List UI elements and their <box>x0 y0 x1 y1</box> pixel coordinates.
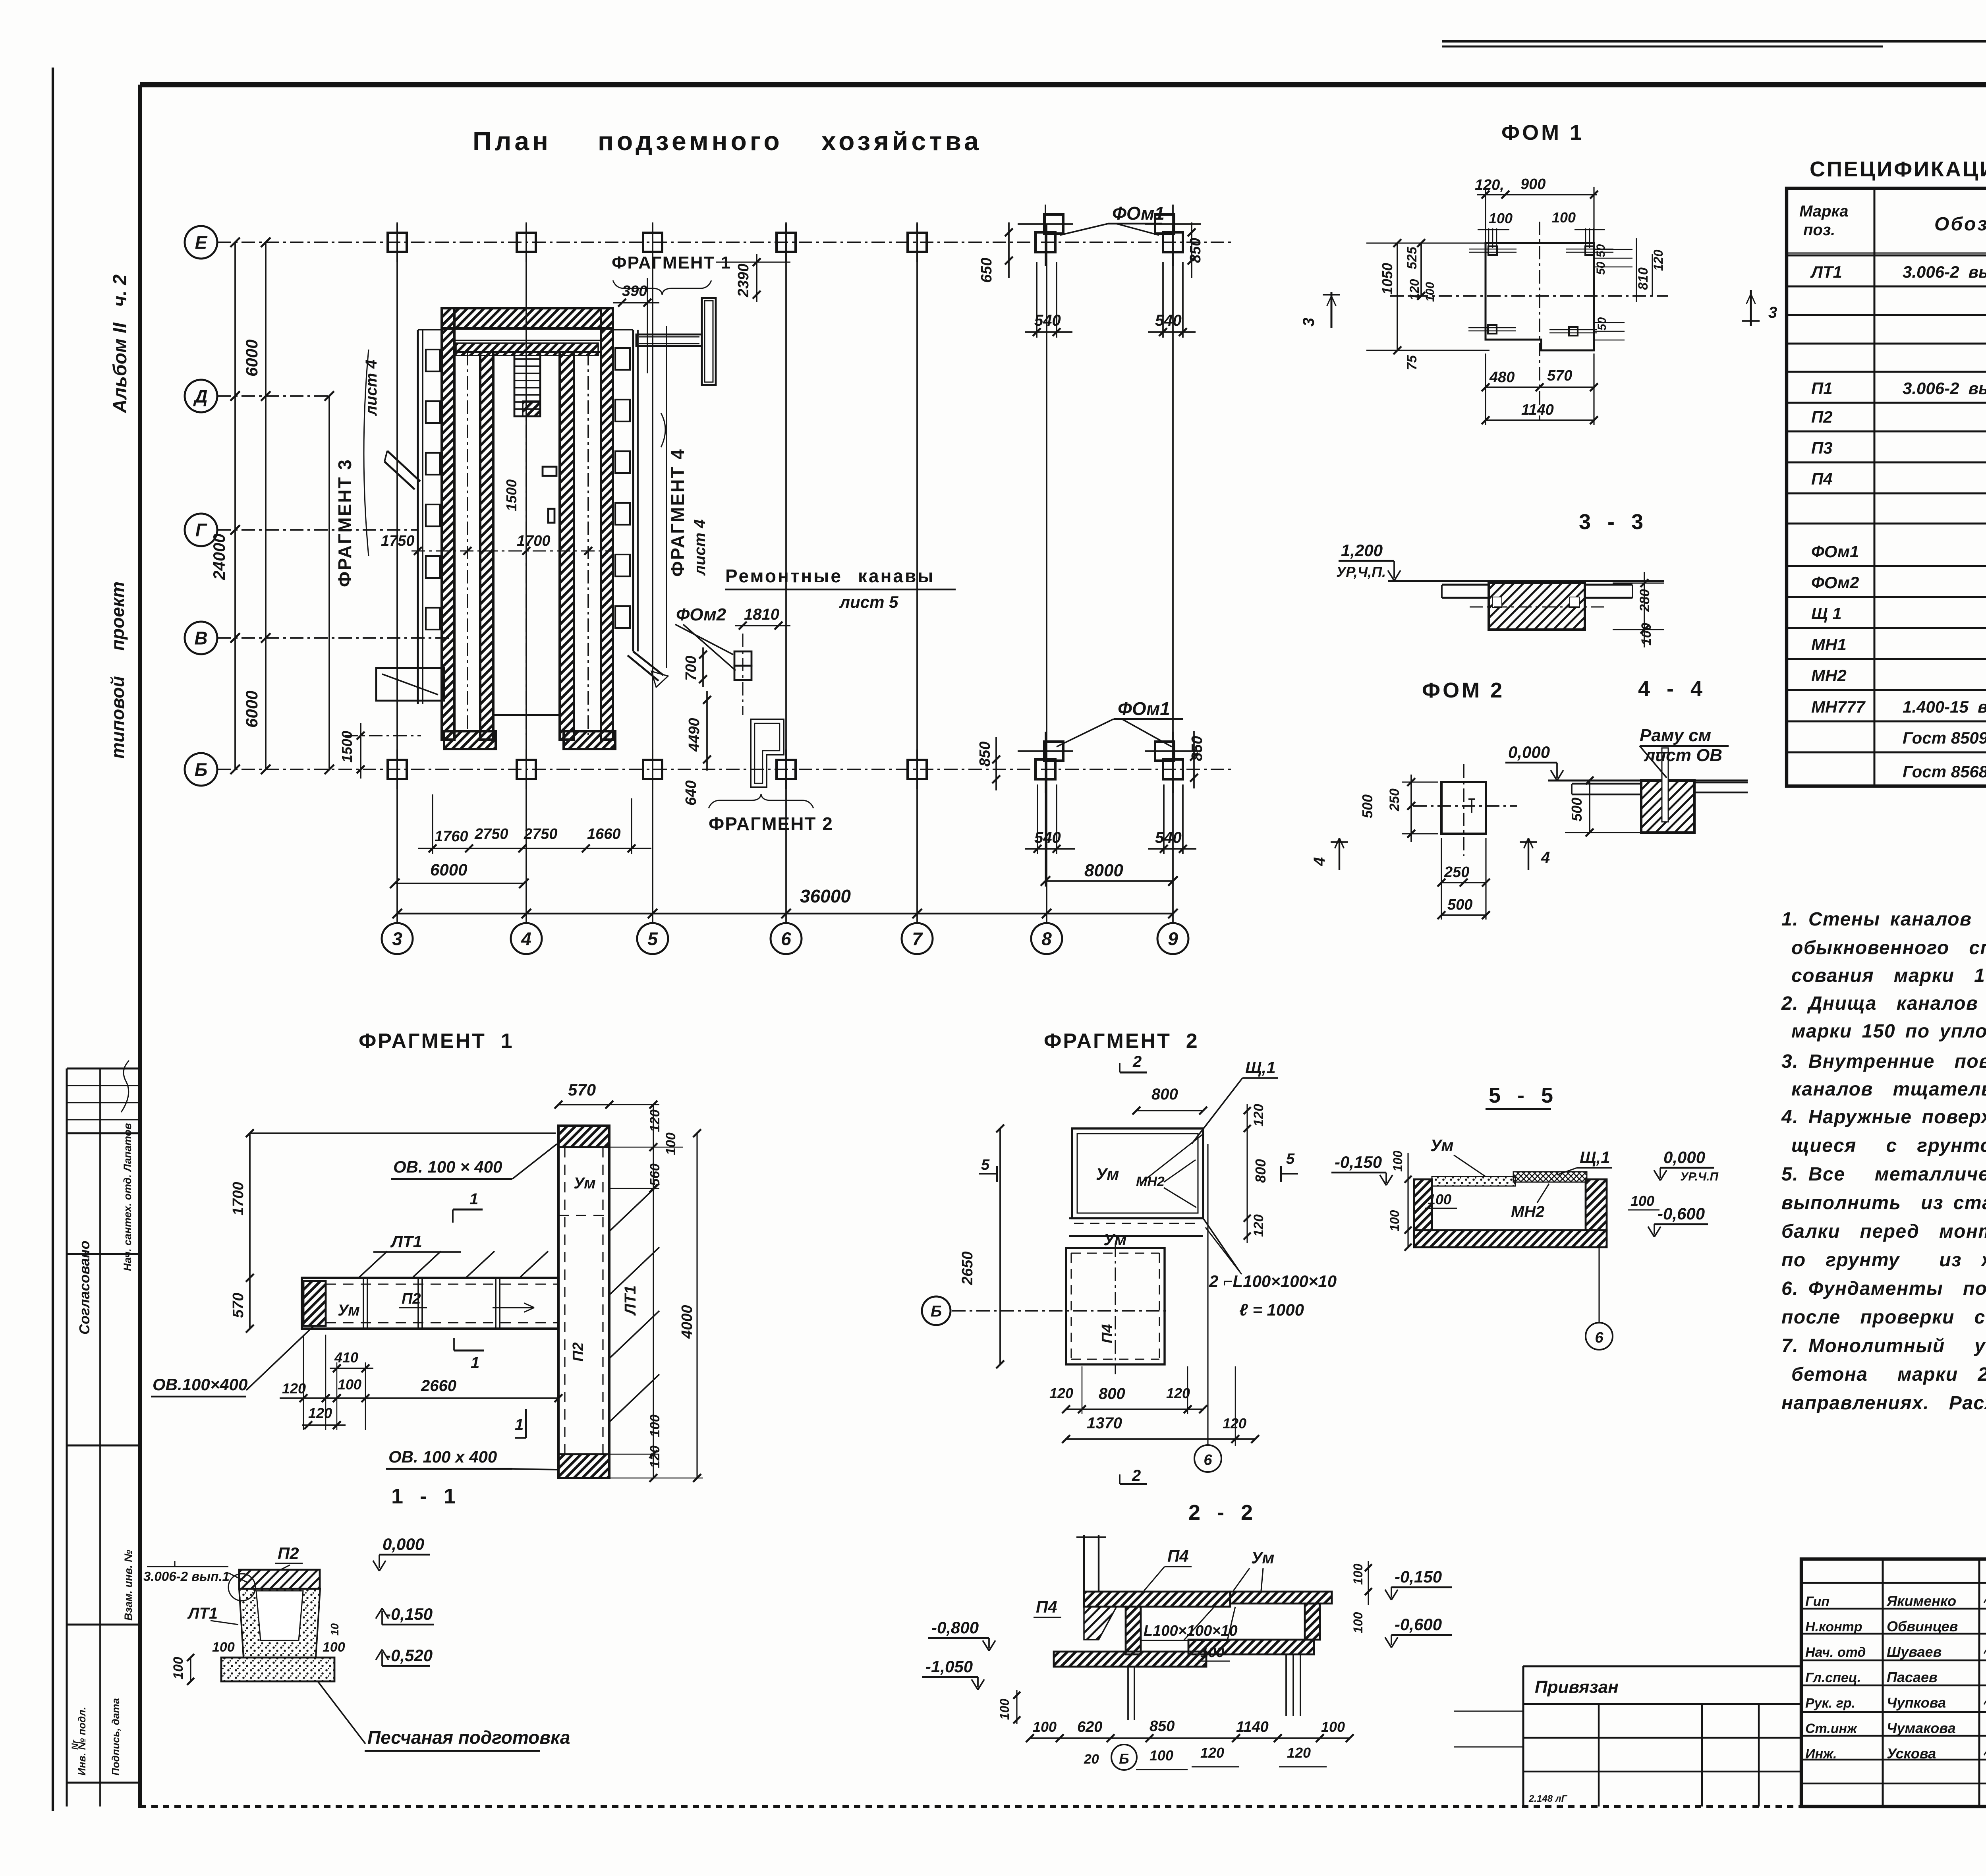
svg-text:700: 700 <box>683 656 699 681</box>
svg-text:Nr: Nr <box>70 1739 80 1750</box>
svg-text:балки перед монтажом покрыт: балки перед монтажом покрыть масляной кр… <box>1781 1221 1986 1242</box>
svg-text:типовой проект: типовой проект <box>107 582 128 759</box>
svg-text:Ум: Ум <box>1430 1136 1453 1155</box>
svg-text:120: 120 <box>1223 1415 1246 1432</box>
svg-text:УР,Ч,П.: УР,Ч,П. <box>1336 564 1386 580</box>
svg-text:-0,600: -0,600 <box>1658 1204 1705 1223</box>
svg-text:Шуваев: Шуваев <box>1887 1644 1942 1660</box>
svg-text:525: 525 <box>1404 246 1420 269</box>
svg-text:-0,150: -0,150 <box>385 1605 433 1623</box>
svg-text:480: 480 <box>1489 369 1515 386</box>
svg-text:120: 120 <box>647 1109 663 1132</box>
svg-text:П2: П2 <box>1811 408 1833 426</box>
svg-text:ФРАГМЕНТ 4: ФРАГМЕНТ 4 <box>667 448 688 577</box>
svg-text:1500: 1500 <box>339 731 355 763</box>
svg-text:120: 120 <box>1166 1385 1190 1401</box>
svg-text:120: 120 <box>308 1405 332 1421</box>
svg-text:-0,600: -0,600 <box>1395 1615 1442 1634</box>
svg-text:2. Днища каналов и приямков: 2. Днища каналов и приямков выполнить из… <box>1781 993 1986 1014</box>
svg-text:Н.контр: Н.контр <box>1805 1619 1862 1634</box>
svg-text:ЛТ1: ЛТ1 <box>1810 263 1842 281</box>
svg-text:4. Наружные поверхности кирпи: 4. Наружные поверхности кирпичной кладки… <box>1781 1107 1986 1128</box>
svg-text:П4: П4 <box>1036 1598 1057 1616</box>
svg-text:Гип: Гип <box>1805 1594 1830 1609</box>
svg-text:100: 100 <box>171 1657 186 1679</box>
svg-text:50: 50 <box>1596 317 1609 330</box>
svg-text:390: 390 <box>622 283 647 299</box>
svg-text:100: 100 <box>1552 209 1576 226</box>
svg-text:120: 120 <box>647 1445 663 1468</box>
svg-text:Привязан: Привязан <box>1535 1677 1619 1697</box>
svg-text:Чумакова: Чумакова <box>1887 1720 1956 1736</box>
svg-text:Б: Б <box>195 759 208 780</box>
svg-text:МН2: МН2 <box>1511 1203 1544 1221</box>
svg-text:3.006-2 вып. II-1: 3.006-2 вып. II-1 <box>1903 263 1986 281</box>
svg-text:2390: 2390 <box>735 263 752 298</box>
svg-text:1. Стены каналов и приямка: 1. Стены каналов и приямка выполнить из … <box>1781 909 1986 930</box>
svg-text:3.006-2 вып. II-2: 3.006-2 вып. II-2 <box>1903 379 1986 398</box>
svg-text:100: 100 <box>1391 1150 1405 1172</box>
svg-text:100: 100 <box>1200 1644 1224 1660</box>
svg-text:5. Все металлические конст: 5. Все металлические конструкции перекры… <box>1781 1164 1986 1185</box>
svg-text:Ст.инж: Ст.инж <box>1805 1721 1858 1736</box>
svg-text:500: 500 <box>1359 794 1376 818</box>
svg-text:250: 250 <box>1387 788 1402 811</box>
svg-text:1: 1 <box>469 1190 478 1208</box>
svg-text:ФРАГМЕНТ 1: ФРАГМЕНТ 1 <box>359 1030 514 1053</box>
svg-text:1500: 1500 <box>503 479 520 511</box>
svg-text:ФОм2: ФОм2 <box>1811 573 1859 592</box>
svg-text:щиеся с грунтом, обмазать: щиеся с грунтом, обмазать битумом за 2 р… <box>1791 1135 1986 1156</box>
svg-text:1700: 1700 <box>517 533 551 549</box>
svg-text:120: 120 <box>282 1380 306 1397</box>
svg-text:ОВ. 100 х 400: ОВ. 100 х 400 <box>388 1447 497 1466</box>
svg-text:ФОм1: ФОм1 <box>1811 542 1859 561</box>
svg-text:20: 20 <box>1084 1752 1099 1767</box>
svg-text:Якименко: Якименко <box>1886 1593 1956 1609</box>
svg-text:8: 8 <box>1041 929 1052 949</box>
svg-text:1700: 1700 <box>230 1182 247 1215</box>
svg-text:100: 100 <box>1639 623 1654 645</box>
svg-text:лист ОВ: лист ОВ <box>1644 746 1722 765</box>
svg-text:Песчаная подготовка: Песчаная подготовка <box>367 1727 570 1748</box>
svg-text:1: 1 <box>471 1354 479 1372</box>
svg-text:П4: П4 <box>1811 469 1833 488</box>
svg-text:1.400-15 вып.1: 1.400-15 вып.1 <box>1903 697 1986 716</box>
svg-text:Марка: Марка <box>1799 203 1849 220</box>
svg-text:120: 120 <box>1200 1745 1224 1761</box>
svg-text:900: 900 <box>1520 176 1546 193</box>
svg-text:хозяйства: хозяйства <box>821 126 982 156</box>
svg-text:5: 5 <box>981 1157 990 1173</box>
svg-text:540: 540 <box>1155 829 1182 846</box>
svg-text:Ускова: Ускова <box>1887 1745 1936 1762</box>
svg-text:2660: 2660 <box>421 1377 456 1395</box>
svg-text:СПЕЦИФИКАЦИЯ: СПЕЦИФИКАЦИЯ <box>1810 157 1986 181</box>
svg-text:ФОМ 2: ФОМ 2 <box>1422 678 1505 702</box>
svg-text:850: 850 <box>977 742 993 767</box>
svg-text:2 - 2: 2 - 2 <box>1188 1501 1254 1524</box>
svg-text:ФРАГМЕНТ 2: ФРАГМЕНТ 2 <box>709 813 833 834</box>
svg-text:50: 50 <box>1594 261 1607 275</box>
svg-text:выполнить из стали В СТ3 КП2: выполнить из стали В СТ3 КП2 по ГОСТ 380… <box>1781 1192 1986 1213</box>
svg-text:540: 540 <box>1155 312 1182 329</box>
svg-text:3. Внутренние поверхности к: 3. Внутренние поверхности кирпичных вент… <box>1781 1051 1986 1072</box>
svg-text:-0,800: -0,800 <box>931 1618 979 1637</box>
svg-text:после проверки соответствия: после проверки соответствия их монтируем… <box>1781 1307 1986 1328</box>
svg-text:ЛТ1: ЛТ1 <box>390 1232 422 1251</box>
svg-text:1 - 1: 1 - 1 <box>391 1484 457 1508</box>
svg-text:0,000: 0,000 <box>1508 743 1550 761</box>
svg-text:8000: 8000 <box>1084 861 1123 880</box>
svg-text:75: 75 <box>1404 355 1420 370</box>
svg-text:640: 640 <box>683 781 699 806</box>
svg-text:50: 50 <box>1594 244 1607 257</box>
svg-text:П4: П4 <box>1099 1324 1116 1343</box>
svg-text:1: 1 <box>515 1416 524 1434</box>
svg-text:280: 280 <box>1637 589 1652 612</box>
svg-text:2 ⌐L100×100×10: 2 ⌐L100×100×10 <box>1209 1272 1337 1291</box>
svg-text:410: 410 <box>334 1349 358 1366</box>
svg-text:2750: 2750 <box>474 826 508 842</box>
svg-text:100: 100 <box>1631 1193 1654 1209</box>
svg-text:-0,150: -0,150 <box>1395 1567 1442 1586</box>
svg-text:по грунту из железного: по грунту из железного сурика. <box>1781 1250 1986 1271</box>
svg-text:100: 100 <box>338 1376 361 1393</box>
svg-text:5 - 5: 5 - 5 <box>1489 1084 1555 1107</box>
svg-text:120: 120 <box>1407 279 1422 300</box>
svg-text:100: 100 <box>1424 282 1437 302</box>
svg-text:2650: 2650 <box>959 1251 976 1285</box>
svg-text:1760: 1760 <box>435 828 468 845</box>
svg-text:Обвинцев: Обвинцев <box>1887 1618 1958 1634</box>
svg-text:120: 120 <box>1049 1385 1073 1401</box>
svg-text:-0,520: -0,520 <box>385 1646 433 1665</box>
svg-text:бетона марки 200 армирован: бетона марки 200 армированного Ф8АI шаго… <box>1791 1364 1986 1385</box>
svg-text:500: 500 <box>1569 798 1585 821</box>
svg-text:4: 4 <box>1541 849 1550 866</box>
svg-text:3: 3 <box>392 929 402 949</box>
svg-text:650: 650 <box>978 258 995 283</box>
svg-text:Нач. отд: Нач. отд <box>1805 1645 1866 1660</box>
svg-text:5: 5 <box>647 929 658 949</box>
svg-text:Д: Д <box>193 386 207 407</box>
svg-text:120: 120 <box>1251 1214 1266 1237</box>
svg-text:7. Монолитный участок пере: 7. Монолитный участок перекрытия канала … <box>1781 1335 1986 1356</box>
svg-text:800: 800 <box>1252 1159 1269 1183</box>
svg-text:Гл.спец.: Гл.спец. <box>1805 1670 1861 1685</box>
svg-text:1050: 1050 <box>1379 263 1395 295</box>
svg-text:Пасаев: Пасаев <box>1887 1669 1938 1685</box>
svg-text:7: 7 <box>912 929 923 949</box>
svg-text:Рук. гр.: Рук. гр. <box>1805 1696 1855 1711</box>
svg-text:4000: 4000 <box>679 1305 695 1339</box>
svg-text:УР.Ч.П: УР.Ч.П <box>1680 1170 1719 1183</box>
svg-text:100: 100 <box>1351 1612 1365 1633</box>
svg-text:850: 850 <box>1187 238 1204 263</box>
svg-text:6: 6 <box>1595 1329 1603 1346</box>
svg-text:канавы: канавы <box>858 566 935 586</box>
svg-text:100: 100 <box>1428 1191 1451 1208</box>
svg-text:-1,050: -1,050 <box>925 1657 973 1676</box>
svg-text:направлениях. Расход материа: направлениях. Расход материалов: бетон-0… <box>1781 1393 1986 1414</box>
svg-text:В: В <box>194 628 207 649</box>
svg-text:3.006-2 вып.1: 3.006-2 вып.1 <box>143 1569 230 1584</box>
svg-text:3 - 3: 3 - 3 <box>1579 510 1645 534</box>
svg-text:поз.: поз. <box>1803 221 1835 239</box>
svg-text:Ум: Ум <box>1096 1165 1119 1183</box>
svg-text:марки 150 по уплотненному ще: марки 150 по уплотненному щебнем грунту. <box>1791 1021 1986 1042</box>
svg-text:Щ,1: Щ,1 <box>1580 1148 1610 1167</box>
svg-text:120: 120 <box>1287 1745 1311 1761</box>
svg-text:Инж.: Инж. <box>1805 1747 1837 1762</box>
svg-text:1140: 1140 <box>1236 1719 1269 1735</box>
svg-text:100: 100 <box>1321 1719 1345 1735</box>
svg-text:2750: 2750 <box>524 826 558 842</box>
svg-text:2: 2 <box>1132 1053 1142 1070</box>
svg-text:П2: П2 <box>570 1343 587 1362</box>
svg-text:570: 570 <box>1547 367 1572 384</box>
svg-text:4490: 4490 <box>686 718 703 752</box>
svg-text:9: 9 <box>1168 929 1178 949</box>
svg-text:1750: 1750 <box>381 533 415 549</box>
svg-text:Ум: Ум <box>338 1302 360 1319</box>
svg-text:ФРАГМЕНТ 1: ФРАГМЕНТ 1 <box>612 253 731 272</box>
svg-text:обыкновенного сплошного кирп: обыкновенного сплошного кирпича пластиче… <box>1791 937 1986 958</box>
svg-text:800: 800 <box>1099 1385 1125 1403</box>
svg-text:ФОм2: ФОм2 <box>676 605 726 624</box>
svg-text:250: 250 <box>1444 864 1469 881</box>
svg-text:850: 850 <box>1149 1718 1175 1735</box>
svg-text:Нач. сантех. отд. Лапатов: Нач. сантех. отд. Лапатов <box>122 1123 133 1271</box>
svg-text:36000: 36000 <box>800 886 851 906</box>
svg-text:ФОм1: ФОм1 <box>1112 203 1165 224</box>
svg-text:Взам. инв. №: Взам. инв. № <box>122 1550 134 1621</box>
svg-text:ФОм1: ФОм1 <box>1118 698 1170 719</box>
svg-text:Б: Б <box>931 1302 942 1320</box>
svg-text:100: 100 <box>647 1414 663 1437</box>
svg-text:570: 570 <box>568 1080 596 1099</box>
svg-text:120: 120 <box>1251 1104 1266 1126</box>
svg-text:лист 4: лист 4 <box>691 520 709 576</box>
svg-text:100: 100 <box>323 1640 345 1655</box>
svg-text:4: 4 <box>521 929 531 949</box>
svg-text:100: 100 <box>212 1640 235 1655</box>
svg-text:МН1: МН1 <box>1811 635 1847 654</box>
svg-text:ЛТ1: ЛТ1 <box>622 1285 639 1316</box>
svg-text:П1: П1 <box>1811 379 1833 398</box>
svg-text:Е: Е <box>195 232 208 253</box>
svg-text:6: 6 <box>1204 1452 1212 1468</box>
svg-text:100: 100 <box>1033 1719 1057 1735</box>
svg-text:Согласовано: Согласовано <box>76 1240 93 1335</box>
svg-text:100: 100 <box>663 1132 678 1155</box>
svg-text:МН2: МН2 <box>1811 666 1847 685</box>
svg-text:П4: П4 <box>1167 1547 1189 1565</box>
svg-text:Обозначение: Обозначение <box>1934 214 1986 235</box>
svg-text:1810: 1810 <box>744 606 779 623</box>
svg-text:лист 5: лист 5 <box>839 593 898 611</box>
svg-text:ОВ. 100 × 400: ОВ. 100 × 400 <box>393 1157 502 1176</box>
svg-text:100: 100 <box>1489 210 1513 226</box>
svg-text:100: 100 <box>1351 1563 1365 1585</box>
svg-text:0,000: 0,000 <box>1663 1148 1705 1167</box>
svg-text:100: 100 <box>997 1698 1012 1720</box>
svg-text:6: 6 <box>781 929 791 949</box>
svg-text:24000: 24000 <box>210 533 228 580</box>
svg-text:Щ,1: Щ,1 <box>1245 1058 1276 1077</box>
svg-text:ФРАГМЕНТ 2: ФРАГМЕНТ 2 <box>1044 1030 1199 1053</box>
svg-text:ℓ = 1000: ℓ = 1000 <box>1239 1300 1304 1319</box>
svg-text:МН2: МН2 <box>1136 1174 1165 1189</box>
svg-text:ФРАГМЕНТ 3: ФРАГМЕНТ 3 <box>334 458 355 587</box>
svg-text:МН777: МН777 <box>1811 697 1866 716</box>
svg-text:570: 570 <box>230 1293 247 1318</box>
svg-text:1660: 1660 <box>587 826 621 842</box>
svg-text:Ремонтные: Ремонтные <box>725 566 842 586</box>
svg-text:1370: 1370 <box>1087 1414 1122 1432</box>
svg-text:каналов тщательно затереть: каналов тщательно затереть цементным рас… <box>1791 1079 1986 1100</box>
svg-text:подземного: подземного <box>598 126 783 156</box>
svg-text:П2: П2 <box>402 1291 421 1307</box>
svg-text:1140: 1140 <box>1521 402 1554 418</box>
svg-text:3: 3 <box>1768 304 1777 321</box>
svg-text:6000: 6000 <box>242 340 261 377</box>
svg-text:Гост 8509- 72*: Гост 8509- 72* <box>1903 728 1986 747</box>
svg-text:Ум: Ум <box>1251 1548 1274 1567</box>
svg-text:П2: П2 <box>278 1544 299 1563</box>
svg-text:ФОМ 1: ФОМ 1 <box>1501 121 1584 145</box>
svg-text:ЛТ1: ЛТ1 <box>187 1605 218 1622</box>
svg-text:Чупкова: Чупкова <box>1887 1694 1946 1711</box>
svg-text:100: 100 <box>1387 1210 1402 1231</box>
svg-text:2: 2 <box>1132 1467 1141 1484</box>
svg-text:100: 100 <box>1149 1747 1173 1764</box>
svg-text:810: 810 <box>1636 267 1651 290</box>
svg-text:10: 10 <box>328 1623 341 1636</box>
svg-text:Альбом II ч. 2: Альбом II ч. 2 <box>110 274 131 413</box>
svg-text:620: 620 <box>1077 1719 1102 1735</box>
svg-text:Ум: Ум <box>574 1175 596 1192</box>
svg-text:4 - 4: 4 - 4 <box>1638 677 1704 701</box>
svg-text:5: 5 <box>1286 1151 1295 1167</box>
svg-text:Подпись, дата: Подпись, дата <box>110 1698 122 1776</box>
svg-text:1,200: 1,200 <box>1341 541 1383 560</box>
svg-text:3: 3 <box>1300 318 1318 327</box>
svg-text:Б: Б <box>1119 1750 1129 1767</box>
svg-text:6000: 6000 <box>430 860 467 879</box>
svg-text:6. Фундаменты под оборудован: 6. Фундаменты под оборудование выполнить… <box>1781 1278 1986 1299</box>
svg-text:П3: П3 <box>1811 439 1833 457</box>
svg-text:800: 800 <box>1151 1086 1178 1103</box>
svg-text:120: 120 <box>1651 249 1665 271</box>
svg-text:сования марки 100 на раство: сования марки 100 на растворе марки 50. <box>1791 965 1986 986</box>
svg-text:500: 500 <box>1447 896 1472 913</box>
svg-text:ОВ.100×400: ОВ.100×400 <box>153 1375 247 1394</box>
svg-text:Щ 1: Щ 1 <box>1811 604 1842 623</box>
svg-text:0,000: 0,000 <box>383 1535 424 1553</box>
svg-text:L100×100×10: L100×100×10 <box>1144 1623 1238 1639</box>
svg-text:2.148 лГ: 2.148 лГ <box>1528 1793 1568 1804</box>
svg-text:850: 850 <box>1189 736 1206 761</box>
svg-text:4: 4 <box>1311 857 1328 866</box>
svg-text:560: 560 <box>647 1163 663 1186</box>
svg-text:План: План <box>473 126 551 156</box>
svg-text:6000: 6000 <box>242 691 261 728</box>
svg-text:Г: Г <box>195 520 207 541</box>
svg-text:Гост 8568 -77*: Гост 8568 -77* <box>1903 762 1986 781</box>
svg-text:Раму см: Раму см <box>1640 726 1711 745</box>
svg-text:-0,150: -0,150 <box>1335 1153 1382 1171</box>
